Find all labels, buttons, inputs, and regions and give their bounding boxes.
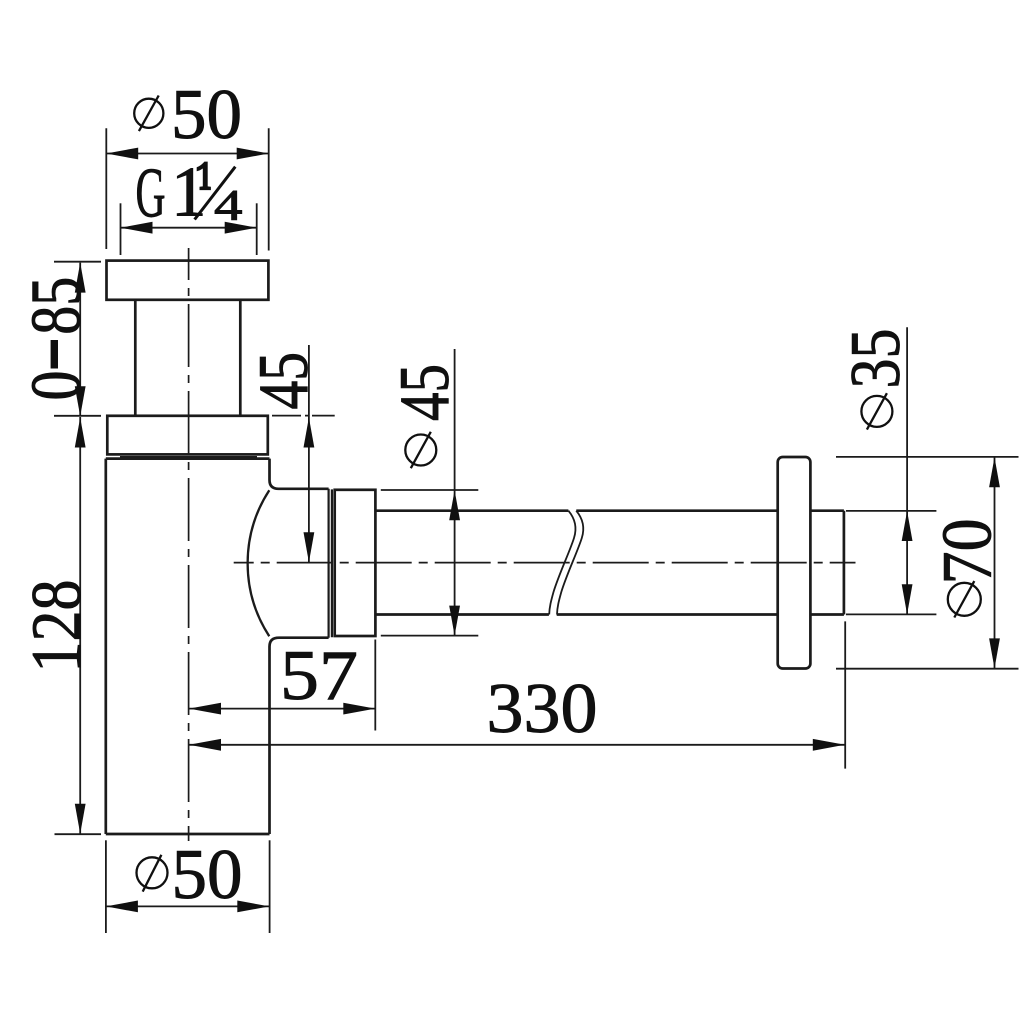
arrow 0-85 up [75, 263, 86, 293]
arrow d50 top right [237, 148, 269, 160]
tick 0-85 bottom [54, 415, 101, 417]
arrow d50 top left [106, 148, 138, 160]
tick 0-85 top [54, 261, 101, 263]
arrow 45 left down [304, 532, 315, 562]
diameter symbol bottom d50 [137, 855, 168, 892]
arrow G1-1/4 left [121, 222, 153, 234]
slip nut flange [107, 416, 267, 455]
outlet nut [335, 490, 376, 636]
ext line d50 bottom left [105, 840, 107, 933]
arrow d35 down [902, 584, 913, 614]
pipe break line left [549, 511, 575, 615]
arrow d50 bottom right [237, 901, 269, 913]
arrow 57 left [189, 703, 221, 715]
pipe break line right [557, 511, 583, 615]
spherical joint arc [248, 490, 270, 636]
dim line G1-1/4 [121, 227, 257, 229]
fraction slash [195, 167, 236, 220]
diameter symbol d45 mid [405, 432, 436, 468]
arrow 0-85 down [75, 386, 86, 416]
arrow d45 down [449, 606, 460, 636]
outlet pipe bottom wall [375, 613, 844, 616]
dim line d70 [994, 457, 996, 668]
dim line d35 [906, 327, 908, 614]
dim line 45 left [308, 345, 310, 562]
ext line G1-1/4 right [256, 203, 258, 255]
top inlet flange [107, 261, 269, 300]
dim line d45 mid [454, 349, 456, 636]
ext line d45 top [381, 489, 479, 491]
arrow 57 right [343, 703, 375, 715]
outlet pipe end edge [843, 511, 846, 615]
arrow d70 up [989, 457, 1000, 487]
svg-text:45: 45 [386, 364, 464, 421]
trap body right wall upper with branch top [270, 459, 329, 489]
trap body top edge [106, 457, 270, 460]
svg-text:57: 57 [280, 637, 358, 715]
label 1 numerator [197, 162, 211, 191]
arrow d50 bottom left [106, 901, 138, 913]
arrow d35 up [902, 511, 913, 541]
ext line d50 top left [105, 128, 107, 249]
svg-text:35: 35 [837, 329, 915, 389]
joint ring line 1 [328, 489, 330, 638]
trap body bottom edge [106, 833, 270, 836]
dim line 128 [79, 417, 81, 834]
dim line 0-85 [79, 263, 81, 417]
arrow 45 left up [304, 418, 315, 448]
tailpiece pipe left wall [134, 300, 137, 416]
tailpiece pipe right wall [239, 300, 242, 416]
outlet pipe top wall [375, 509, 844, 512]
flange plane dash extension [272, 415, 335, 417]
dim line 57 [189, 708, 375, 710]
dim line d50 top [106, 153, 269, 155]
diameter symbol top d50 [134, 96, 163, 132]
arrow 128 down [75, 804, 86, 834]
svg-text:0: 0 [18, 371, 96, 401]
ext line d35 bottom [846, 613, 936, 615]
ext line 57 right [374, 640, 376, 731]
arrow d70 down [989, 638, 1000, 668]
ext line d50 bottom right [269, 840, 271, 933]
arrow 128 up [75, 418, 86, 448]
svg-text:70: 70 [929, 518, 1007, 584]
tick 128 bottom [55, 833, 102, 835]
svg-text:128: 128 [18, 580, 96, 673]
label 0-85 dash [51, 340, 58, 369]
svg-text:4: 4 [214, 183, 243, 230]
svg-text:50: 50 [172, 836, 243, 914]
vertical centerline [188, 248, 190, 841]
horizontal centerline [234, 562, 856, 564]
dim line d50 bottom [106, 905, 269, 907]
svg-text:85: 85 [18, 277, 96, 335]
joint ring line 2 [331, 489, 333, 637]
ext line d70 bottom [836, 668, 1019, 670]
arrow 330 right [813, 739, 845, 751]
arrow d45 up [449, 490, 460, 520]
body lip line [120, 456, 257, 458]
diameter symbol d70 [948, 581, 981, 617]
ext line d45 bottom [381, 635, 479, 637]
diameter symbol d35 [861, 393, 892, 429]
ext line 330 right [844, 621, 846, 768]
arrow G1-1/4 right [225, 222, 257, 234]
arrow 330 left [189, 739, 221, 751]
trap body right wall lower with branch bottom [270, 638, 329, 834]
ext line d35 top [846, 510, 936, 512]
svg-text:330: 330 [487, 670, 598, 748]
dim line 330 [189, 744, 845, 746]
ext line d70 top [836, 456, 1019, 458]
ext line d50 top right [268, 128, 270, 250]
svg-text:50: 50 [171, 76, 242, 154]
svg-text:G: G [136, 155, 166, 233]
trap body left wall [104, 459, 107, 834]
ext line G1-1/4 left [120, 203, 122, 255]
svg-text:45: 45 [245, 352, 323, 410]
wall flange escutcheon [778, 457, 811, 669]
